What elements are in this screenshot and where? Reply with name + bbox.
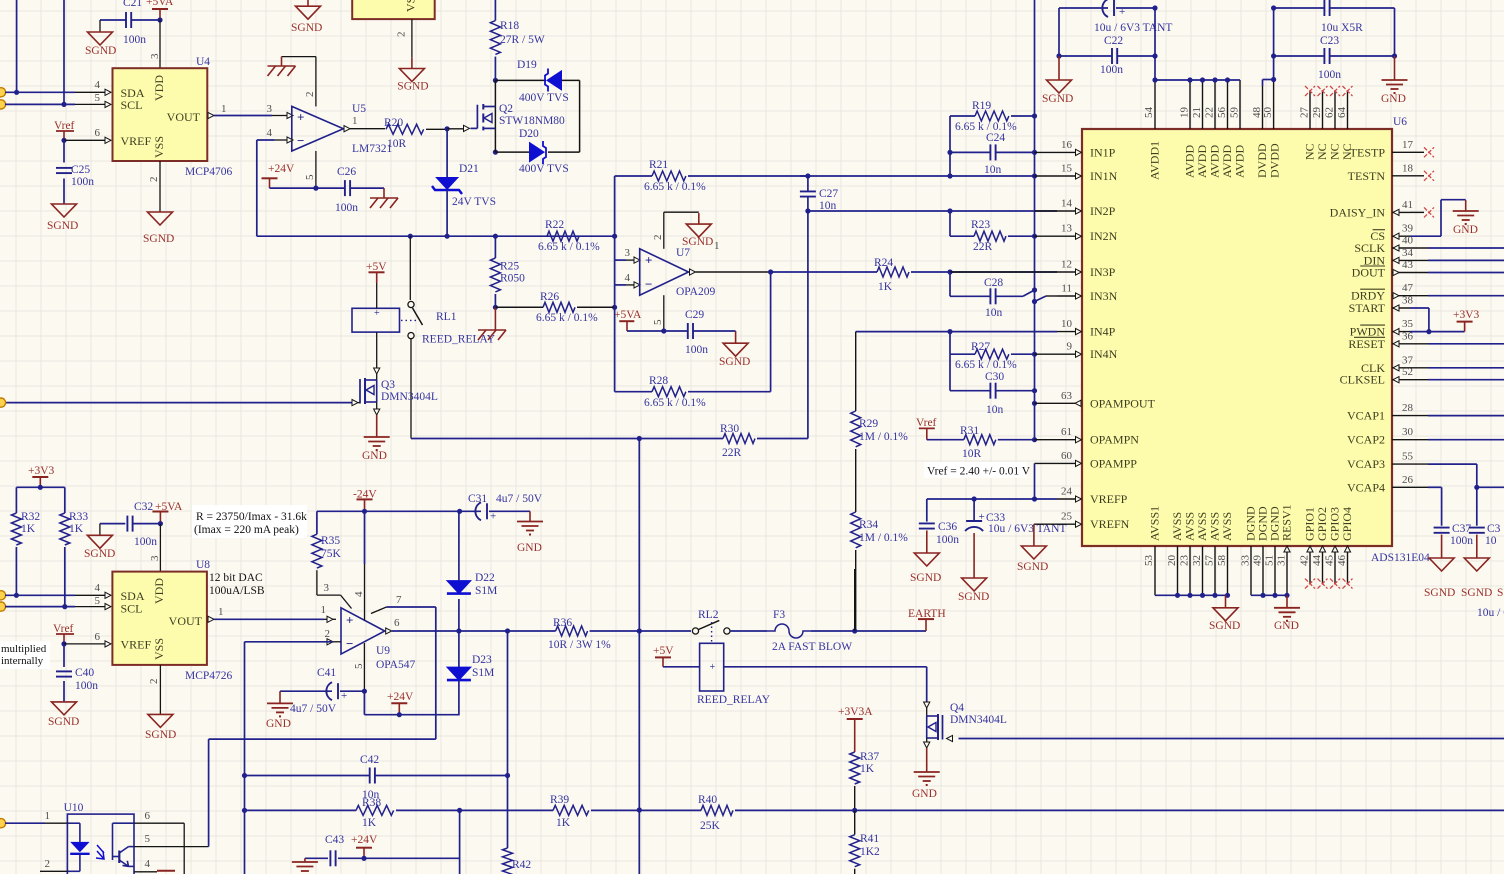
svg-text:+3V3A: +3V3A xyxy=(838,706,873,718)
svg-text:+3V3: +3V3 xyxy=(28,465,55,477)
svg-text:21: 21 xyxy=(1191,107,1203,118)
svg-text:4: 4 xyxy=(353,591,365,597)
pin 44 GPIO2 xyxy=(1322,546,1324,584)
svg-text:29: 29 xyxy=(1311,107,1323,119)
wire DOUT xyxy=(1410,272,1428,274)
svg-text:58: 58 xyxy=(1216,555,1228,567)
wire VREFN pin 25 xyxy=(1034,523,1057,525)
svg-text:R28: R28 xyxy=(649,375,668,387)
svg-text:+3V3: +3V3 xyxy=(1453,309,1480,321)
svg-text:GPIO4: GPIO4 xyxy=(1340,507,1354,541)
diode D22 S1M xyxy=(458,599,460,631)
capacitor C38 100n xyxy=(1469,527,1485,529)
svg-text:2: 2 xyxy=(148,177,160,183)
node C27 bottom xyxy=(805,208,810,213)
capacitor C25 100n xyxy=(63,140,65,162)
svg-text:35: 35 xyxy=(1402,318,1414,330)
svg-text:100n: 100n xyxy=(936,534,959,546)
svg-text:RL1: RL1 xyxy=(436,311,457,323)
off-sheet connector SCL bottom xyxy=(0,602,6,611)
svg-text:VCAP3: VCAP3 xyxy=(1347,457,1385,471)
node R22 / U7 +in xyxy=(612,234,617,239)
LED inside U10 xyxy=(67,822,80,824)
svg-text:C27: C27 xyxy=(819,188,838,200)
svg-text:C31: C31 xyxy=(468,493,487,505)
svg-text:100n: 100n xyxy=(1450,535,1473,547)
ground GND at C43 xyxy=(304,858,306,862)
svg-text:28: 28 xyxy=(1402,402,1414,414)
svg-text:4: 4 xyxy=(145,858,151,870)
ground GND at CS xyxy=(1465,200,1467,211)
resistor R18 27R/5W xyxy=(490,21,500,55)
svg-text:R22: R22 xyxy=(545,219,564,231)
svg-text:32: 32 xyxy=(1191,555,1203,566)
wire R30 row xyxy=(411,438,723,440)
resistor R30 22R xyxy=(723,434,755,444)
wire pin5 up to pin7 row xyxy=(208,739,210,847)
wire IN2P to pin 14 xyxy=(1035,210,1058,212)
svg-text:R36: R36 xyxy=(553,617,572,629)
svg-text:D19: D19 xyxy=(517,59,537,71)
svg-text:U8: U8 xyxy=(196,559,210,571)
wire C27 node down to R30 xyxy=(807,211,809,439)
svg-text:1: 1 xyxy=(352,115,358,127)
pin 19 AVDD xyxy=(1189,80,1191,129)
wire SDA to U8 pin 4 xyxy=(5,594,75,596)
wire DAISY_IN no-connect xyxy=(1410,211,1424,213)
wire U7 pin4 xyxy=(614,260,616,307)
svg-text:SGND: SGND xyxy=(958,591,989,603)
node R30/vertical xyxy=(637,436,642,441)
svg-text:5: 5 xyxy=(304,174,316,180)
svg-text:5: 5 xyxy=(652,319,664,325)
wire RESET xyxy=(1410,343,1428,345)
svg-text:DOUT: DOUT xyxy=(1352,266,1386,280)
svg-text:−: − xyxy=(297,133,304,148)
chassis ground at U5 pin2 xyxy=(281,57,283,66)
wire DIN xyxy=(1410,259,1428,261)
svg-text:Vref: Vref xyxy=(916,417,937,429)
wire SCL bus vertical xyxy=(63,0,65,104)
node R38 row xyxy=(242,808,247,813)
node R38/R39 xyxy=(457,808,462,813)
wire U10 pin 1 xyxy=(5,822,45,824)
svg-text:R40: R40 xyxy=(698,794,717,806)
svg-text:SGND: SGND xyxy=(1209,620,1240,632)
svg-text:24V TVS: 24V TVS xyxy=(452,196,496,208)
node gate Q2 / D21 xyxy=(445,126,450,131)
wire C22 left to SGND xyxy=(1058,8,1060,56)
IC U10 optocoupler xyxy=(67,814,134,874)
svg-text:100n: 100n xyxy=(1318,69,1341,81)
svg-text:100n: 100n xyxy=(71,176,94,188)
pin 56 AVDD xyxy=(1227,80,1229,129)
wire OPAMPN pin 61 xyxy=(1035,439,1058,441)
wire TESTN no-connect xyxy=(1410,175,1424,177)
svg-text:30: 30 xyxy=(1402,426,1414,438)
svg-text:33: 33 xyxy=(1240,555,1252,567)
wire CS to GND hook xyxy=(1410,235,1441,237)
relay RL1 switch xyxy=(409,236,411,300)
svg-text:57: 57 xyxy=(1204,555,1216,567)
svg-text:2A FAST BLOW: 2A FAST BLOW xyxy=(772,641,852,653)
svg-text:VREF: VREF xyxy=(121,134,152,148)
svg-text:2: 2 xyxy=(148,679,160,685)
wire CLKSEL xyxy=(1410,379,1428,381)
wire to U7 pin3 xyxy=(614,236,616,260)
wire SCL to U8 pin 5 xyxy=(5,606,75,608)
pin 63 OPAMPOUT xyxy=(1057,402,1075,404)
capacitor C33 10u TANT xyxy=(973,499,975,521)
ground SGND below top IC xyxy=(411,58,413,69)
wire pin7 to opto vertical xyxy=(435,607,437,739)
svg-text:REED_RELAY: REED_RELAY xyxy=(422,334,496,346)
node at R39 row xyxy=(637,807,642,812)
pin 28 VCAP1 xyxy=(1392,415,1410,417)
svg-text:CLKSEL: CLKSEL xyxy=(1340,373,1385,387)
wire U5 output to R20 xyxy=(344,126,350,132)
svg-text:R26: R26 xyxy=(540,291,559,303)
svg-text:DAISY_IN: DAISY_IN xyxy=(1330,205,1386,219)
wire +3V3 rail xyxy=(16,486,64,488)
svg-text:C43: C43 xyxy=(325,834,344,846)
wire U7 output xyxy=(690,269,696,275)
svg-text:OPAMPP: OPAMPP xyxy=(1090,456,1137,470)
capacitor C23 10u X5R xyxy=(1274,7,1325,9)
svg-text:TESTP: TESTP xyxy=(1350,145,1386,159)
IC cut-off top regulator xyxy=(352,0,435,19)
node C42 row xyxy=(242,773,247,778)
svg-text:1M / 0.1%: 1M / 0.1% xyxy=(859,532,908,544)
svg-text:VREF: VREF xyxy=(121,638,152,652)
svg-text:C37: C37 xyxy=(1452,523,1471,535)
svg-text:U10: U10 xyxy=(64,802,84,814)
svg-text:59: 59 xyxy=(1229,107,1241,119)
pin 49 DGND xyxy=(1262,546,1264,595)
IC U6 ADS131E04 xyxy=(1082,129,1392,546)
svg-text:R = 23750/Imax - 31.6k: R = 23750/Imax - 31.6k xyxy=(196,511,307,523)
svg-text:VDD: VDD xyxy=(152,75,166,101)
svg-text:VREFN: VREFN xyxy=(1090,517,1130,531)
ground SGND under C37 xyxy=(1429,558,1454,571)
svg-text:64: 64 xyxy=(1336,107,1348,119)
svg-text:2: 2 xyxy=(396,32,408,38)
svg-text:OPAMPN: OPAMPN xyxy=(1090,433,1139,447)
svg-text:D22: D22 xyxy=(475,572,495,584)
capacitor C22 10u TANT xyxy=(1059,7,1108,9)
resistor R24 1K xyxy=(877,267,909,277)
pin 18 TESTN xyxy=(1392,175,1410,177)
svg-text:C36: C36 xyxy=(938,521,957,533)
pin 27 NC xyxy=(1309,91,1311,129)
svg-text:60: 60 xyxy=(1061,450,1073,462)
ground GND at C31 xyxy=(529,511,531,521)
svg-text:VSS: VSS xyxy=(152,638,166,660)
ground SGND top center-left xyxy=(307,0,309,6)
svg-text:R19: R19 xyxy=(972,100,991,112)
svg-text:IN3P: IN3P xyxy=(1090,265,1116,279)
svg-text:4: 4 xyxy=(267,127,273,139)
svg-text:39: 39 xyxy=(1402,223,1414,235)
ground SGND at VREFN xyxy=(1021,546,1046,559)
svg-text:1K: 1K xyxy=(362,817,377,829)
svg-text:6.65 k / 0.1%: 6.65 k / 0.1% xyxy=(644,397,706,409)
svg-text:18: 18 xyxy=(1402,162,1414,174)
pin 38 START xyxy=(1392,307,1410,309)
pin 11 IN3N xyxy=(1057,295,1075,297)
chassis ground at C26 xyxy=(383,188,385,198)
svg-text:U4: U4 xyxy=(196,56,210,68)
svg-text:C25: C25 xyxy=(71,164,90,176)
relay RL2 coil xyxy=(700,643,724,691)
svg-text:3: 3 xyxy=(267,103,273,115)
wire coil to Q4 drain xyxy=(724,666,927,668)
wire VCAP1 xyxy=(1410,415,1428,417)
svg-text:SGND: SGND xyxy=(145,729,176,741)
svg-text:55: 55 xyxy=(1402,451,1414,463)
transistor Q2 STW18NM80 xyxy=(494,80,496,152)
divider resistor R29 1M xyxy=(855,332,857,411)
svg-text:IN4N: IN4N xyxy=(1090,347,1118,361)
wire Q3 gate xyxy=(5,402,352,404)
svg-text:10u / 6V3 TANT: 10u / 6V3 TANT xyxy=(1094,22,1172,34)
svg-text:50: 50 xyxy=(1262,107,1274,119)
svg-text:51: 51 xyxy=(1264,555,1276,566)
svg-text:C3: C3 xyxy=(1487,523,1501,535)
svg-text:1K: 1K xyxy=(21,523,36,535)
svg-text:10: 10 xyxy=(1061,318,1073,330)
svg-text:47: 47 xyxy=(1402,282,1414,294)
svg-text:IN2N: IN2N xyxy=(1090,229,1118,243)
svg-text:75K: 75K xyxy=(321,548,342,560)
resistor R36 10R/3W xyxy=(556,626,588,636)
off-sheet connector SCL xyxy=(0,100,6,109)
svg-text:SGND: SGND xyxy=(1017,561,1048,573)
svg-text:GND: GND xyxy=(1453,224,1478,236)
svg-text:VSS: VSS xyxy=(152,136,166,158)
svg-text:4: 4 xyxy=(95,79,101,91)
resistor R31 10R xyxy=(927,439,964,441)
svg-text:IN1P: IN1P xyxy=(1090,145,1116,159)
svg-text:−: − xyxy=(645,277,652,292)
svg-text:SGND: SGND xyxy=(910,572,941,584)
svg-text:1K: 1K xyxy=(556,817,571,829)
svg-text:20: 20 xyxy=(1166,555,1178,567)
svg-text:6: 6 xyxy=(95,631,101,643)
ground GND under C23 xyxy=(1382,79,1408,81)
ground SGND under C40 xyxy=(52,702,77,715)
pin 15 IN1N xyxy=(1057,175,1075,177)
node drain D19 xyxy=(493,78,498,83)
svg-text:+5V: +5V xyxy=(653,645,674,657)
resistor R22 6.65k xyxy=(547,231,579,241)
capacitor C28 10n xyxy=(949,272,951,296)
wire U5 pin5 to +24V xyxy=(315,151,317,188)
svg-text:RESET: RESET xyxy=(1348,337,1385,351)
svg-text:4: 4 xyxy=(95,582,101,594)
pin 9 IN4N xyxy=(1057,353,1075,355)
svg-text:400V TVS: 400V TVS xyxy=(519,163,569,175)
svg-text:+: + xyxy=(710,662,716,673)
capacitor C21 100n xyxy=(100,19,126,21)
svg-text:VS: VS xyxy=(404,0,418,12)
pin 43 DOUT xyxy=(1392,272,1410,274)
note Vref value xyxy=(924,462,1027,478)
svg-text:+5VA: +5VA xyxy=(146,0,174,8)
resistor R39 1K xyxy=(460,809,553,811)
svg-text:R34: R34 xyxy=(859,519,878,531)
svg-text:44: 44 xyxy=(1311,555,1323,567)
svg-text:+5VA: +5VA xyxy=(614,309,642,321)
svg-text:R38: R38 xyxy=(362,797,381,809)
wire U8 VREF pin 6 xyxy=(61,641,66,646)
svg-text:DMN3404L: DMN3404L xyxy=(381,391,438,403)
wire U9 pin4 to -24V xyxy=(364,511,366,564)
resistor R19 6.65k xyxy=(950,115,975,117)
wire SDA bus vertical xyxy=(16,0,18,92)
svg-text:Q2: Q2 xyxy=(499,103,513,115)
svg-text:42: 42 xyxy=(1299,555,1311,566)
capacitor C24 10n xyxy=(947,150,952,155)
ground SGND under C36 xyxy=(914,553,939,566)
diode D23 S1M xyxy=(458,631,460,667)
svg-text:SGND: SGND xyxy=(143,233,174,245)
wire IN1N row xyxy=(800,175,1035,177)
svg-text:R39: R39 xyxy=(550,794,569,806)
ground SGND at C29 xyxy=(735,331,737,343)
svg-text:R23: R23 xyxy=(971,219,990,231)
svg-text:multiplied: multiplied xyxy=(1,643,47,655)
light arrows xyxy=(96,845,104,859)
svg-text:6.65 k / 0.1%: 6.65 k / 0.1% xyxy=(955,359,1017,371)
wire U10 pin 2 xyxy=(67,870,80,872)
svg-text:DMN3404L: DMN3404L xyxy=(950,714,1007,726)
svg-text:R37: R37 xyxy=(860,751,879,763)
resistor R38 1K row xyxy=(245,809,357,811)
wire VCAP3 to C38 xyxy=(1410,463,1428,465)
svg-text:GND: GND xyxy=(266,718,291,730)
svg-text:10: 10 xyxy=(1485,535,1497,547)
svg-text:SGND: SGND xyxy=(47,220,78,232)
wire U10 pin 6 xyxy=(113,822,135,824)
IC U4 MCP4706 xyxy=(113,68,208,161)
pin 40 SCLK xyxy=(1392,247,1410,249)
node source D20 xyxy=(493,150,498,155)
svg-text:Q4: Q4 xyxy=(950,702,964,714)
node R25 bottom xyxy=(493,305,498,310)
svg-text:MCP4706: MCP4706 xyxy=(185,166,233,178)
wire U5 pin2 to chassis ground xyxy=(315,57,317,107)
svg-text:F3: F3 xyxy=(773,609,785,621)
svg-text:C29: C29 xyxy=(685,309,704,321)
svg-text:46: 46 xyxy=(1336,555,1348,567)
off-sheet connector Q3 gate xyxy=(0,398,6,407)
pin 46 GPIO4 xyxy=(1347,546,1349,584)
svg-text:53: 53 xyxy=(1143,555,1155,567)
ground SGND under C22 xyxy=(1047,80,1072,93)
svg-text:22R: 22R xyxy=(722,447,742,459)
wire +HV vertical xyxy=(494,0,496,21)
resistor R35 75K xyxy=(316,511,318,534)
svg-text:25K: 25K xyxy=(700,820,721,832)
pin 62 NC xyxy=(1334,91,1336,129)
power bar at U10 pin4 xyxy=(157,870,175,872)
wire IN4P row xyxy=(856,331,1057,333)
wire START to PWDN xyxy=(1410,307,1429,309)
svg-text:AVSS1: AVSS1 xyxy=(1148,506,1162,541)
relay RL1 coil xyxy=(352,308,400,332)
pin 42 GPIO1 xyxy=(1309,546,1311,584)
svg-text:VDD: VDD xyxy=(152,578,166,604)
svg-text:22R: 22R xyxy=(973,241,993,253)
resistor R28 6.65k xyxy=(614,307,616,391)
svg-text:SGND: SGND xyxy=(84,548,115,560)
svg-text:R32: R32 xyxy=(21,511,40,523)
svg-text:10R / 3W 1%: 10R / 3W 1% xyxy=(548,639,611,651)
svg-text:6: 6 xyxy=(95,127,101,139)
wire VREFP row xyxy=(927,498,1057,500)
svg-text:5: 5 xyxy=(353,663,365,669)
svg-text:49: 49 xyxy=(1252,555,1264,567)
svg-text:6: 6 xyxy=(394,617,400,629)
svg-text:U5: U5 xyxy=(352,103,366,115)
ground SGND under U8 xyxy=(148,714,173,727)
wire U7 pin5 to +5VA xyxy=(663,295,665,331)
capacitor C37 100n xyxy=(1434,527,1450,529)
svg-text:IN3N: IN3N xyxy=(1090,289,1118,303)
resistor R21 6.65k feedback xyxy=(614,176,616,236)
wire +24V rail under U9 xyxy=(363,691,365,715)
svg-text:54: 54 xyxy=(1143,107,1155,119)
wire +5V to coil xyxy=(663,666,700,668)
svg-text:SCL: SCL xyxy=(121,602,143,616)
svg-text:GND: GND xyxy=(912,788,937,800)
resistor R32 1K xyxy=(15,487,17,513)
capacitor C30 10n xyxy=(949,354,951,391)
svg-text:R18: R18 xyxy=(500,20,519,32)
svg-text:R35: R35 xyxy=(321,535,340,547)
wire VCAP4 row stub right xyxy=(1474,485,1479,490)
svg-text:1M / 0.1%: 1M / 0.1% xyxy=(859,431,908,443)
svg-text:6: 6 xyxy=(145,810,151,822)
svg-text:10n: 10n xyxy=(985,307,1003,319)
svg-text:IN1N: IN1N xyxy=(1090,169,1118,183)
svg-text:2: 2 xyxy=(652,235,664,241)
wire AVDD bus xyxy=(1155,79,1240,81)
svg-text:100n: 100n xyxy=(75,680,98,692)
svg-text:+24V: +24V xyxy=(268,163,295,175)
svg-text:16: 16 xyxy=(1061,139,1073,151)
pin 17 TESTP xyxy=(1392,151,1410,153)
svg-text:13: 13 xyxy=(1061,223,1073,235)
wire -24V row xyxy=(317,510,460,512)
ground SGND at C32 xyxy=(99,524,101,536)
capacitor C23b 100n xyxy=(1274,55,1325,57)
pin 14 IN2P xyxy=(1057,210,1075,212)
svg-text:R30: R30 xyxy=(720,423,739,435)
pin 13 IN2N xyxy=(1057,235,1075,237)
wire down to C43 row xyxy=(459,810,461,874)
capacitor C36 100n xyxy=(926,499,928,522)
capacitor C42 10n xyxy=(245,775,370,777)
pin 54 AVDD1 xyxy=(1154,80,1156,129)
wire Q4 source to GND xyxy=(926,738,928,742)
capacitor C40 100n xyxy=(63,644,65,667)
wire U7 pin2 to SGND xyxy=(663,212,665,249)
pin 52 CLKSEL xyxy=(1392,379,1410,381)
node C42 right xyxy=(505,773,510,778)
svg-text:6.65 k / 0.1%: 6.65 k / 0.1% xyxy=(644,181,706,193)
